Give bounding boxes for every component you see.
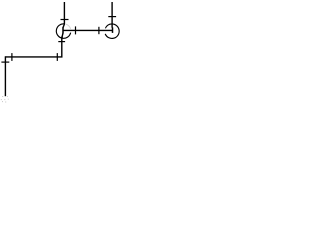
collector lead Q1	[63, 2, 64, 28]
wire: base net between Q1 and Q2	[63, 29, 112, 31]
faint ground remnant dots	[1, 97, 9, 103]
wire: vertical drop at left	[4, 56, 6, 96]
pin tick on Q2 collector	[108, 16, 116, 18]
pin tick on base wire (left)	[75, 26, 77, 34]
Q2 body circle (gap on left)	[105, 24, 119, 38]
pin tick on Q1 collector	[61, 19, 69, 21]
base bar Q1	[62, 27, 64, 33]
emitter lead Q1	[62, 33, 63, 57]
pin tick on horizontal wire (right)	[56, 53, 58, 61]
pin tick on horizontal wire (left)	[11, 53, 13, 61]
Q1 body circle (gap on right)	[56, 24, 70, 39]
pin tick on base wire (right)	[98, 27, 100, 34]
pin tick on Q1 emitter	[58, 41, 65, 43]
transistor Q1	[56, 2, 70, 57]
collector lead Q2	[111, 2, 113, 28]
pin tick on vertical wire	[1, 61, 9, 63]
Q1 faint upper-right arc	[66, 24, 71, 29]
transistor Q2	[105, 2, 119, 38]
wire: emitter net horizontal run	[5, 56, 62, 58]
emitter arrow Q1	[61, 37, 63, 39]
base bar Q2	[112, 27, 114, 33]
